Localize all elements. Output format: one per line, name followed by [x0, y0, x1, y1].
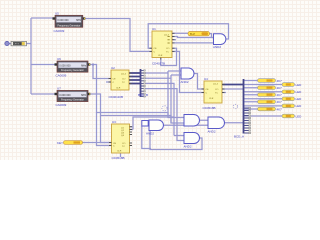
svg-text:U4: U4: [204, 77, 208, 81]
svg-text:LED: LED: [296, 90, 303, 94]
svg-text:Frequency Generator: Frequency Generator: [58, 25, 81, 28]
svg-text:AND2: AND2: [181, 80, 189, 84]
svg-text:Frequency Generator: Frequency Generator: [61, 69, 84, 72]
svg-text:AND2: AND2: [208, 130, 216, 134]
svg-text:LED: LED: [296, 114, 303, 118]
svg-text:CD4518B: CD4518B: [203, 106, 216, 110]
svg-text:CO: CO: [166, 48, 170, 50]
svg-text:BUZ: BUZ: [190, 33, 195, 36]
svg-text:4K7: 4K7: [277, 79, 283, 83]
svg-text:CD4518B: CD4518B: [112, 156, 125, 160]
svg-text:CE: CE: [206, 89, 210, 91]
svg-text:CO: CO: [122, 79, 126, 81]
svg-text:CE: CE: [154, 48, 158, 50]
svg-text:Q1-4: Q1-4: [213, 84, 219, 86]
svg-text:AND2: AND2: [184, 145, 192, 149]
svg-text:4K7: 4K7: [277, 86, 283, 90]
svg-text:U6: U6: [57, 57, 61, 61]
svg-text:CRYS: CRYS: [13, 44, 20, 46]
svg-text:LED: LED: [296, 83, 303, 87]
svg-text:TC: TC: [122, 146, 125, 148]
svg-text:MHz: MHz: [76, 19, 82, 22]
svg-text:4K7: 4K7: [277, 107, 283, 111]
svg-text:0.000 000: 0.000 000: [59, 94, 71, 97]
svg-text:AND2: AND2: [146, 132, 154, 136]
svg-text:CLR: CLR: [158, 55, 163, 57]
svg-text:CLR: CLR: [209, 98, 214, 100]
svg-text:4K7: 4K7: [277, 93, 283, 97]
svg-text:4K7: 4K7: [277, 100, 283, 104]
svg-text:U7: U7: [57, 87, 61, 91]
svg-text:CD40110B: CD40110B: [109, 95, 123, 99]
svg-text:CD4017B: CD4017B: [152, 62, 165, 66]
svg-text:CLR: CLR: [117, 151, 122, 153]
svg-text:CLR: CLR: [116, 88, 121, 90]
svg-text:0.000 000: 0.000 000: [57, 19, 69, 22]
svg-text:TC: TC: [166, 51, 169, 53]
svg-text:MHz: MHz: [81, 94, 87, 97]
svg-text:BCD_A: BCD_A: [234, 135, 244, 139]
svg-text:BCD_B: BCD_B: [138, 93, 148, 97]
svg-text:MHz: MHz: [81, 65, 87, 68]
svg-text:CA0009: CA0009: [54, 29, 65, 33]
svg-text:TC: TC: [215, 92, 218, 94]
svg-text:CE: CE: [113, 79, 117, 81]
svg-text:U3: U3: [112, 120, 116, 124]
svg-text:0.000 000: 0.000 000: [59, 65, 71, 68]
svg-text:Q1-4: Q1-4: [121, 74, 127, 76]
svg-text:LED: LED: [296, 104, 303, 108]
svg-text:CE: CE: [113, 143, 117, 145]
svg-text:U5: U5: [55, 12, 59, 16]
svg-text:KEY: KEY: [57, 141, 63, 145]
svg-text:AND2: AND2: [213, 45, 221, 49]
svg-text:U2: U2: [111, 66, 115, 70]
svg-text:CA0009: CA0009: [56, 74, 67, 78]
svg-text:CO: CO: [215, 89, 219, 91]
svg-text:LED: LED: [296, 97, 303, 101]
svg-text:TC: TC: [122, 82, 125, 84]
svg-text:CO: CO: [122, 143, 126, 145]
svg-text:Frequency Generator: Frequency Generator: [61, 99, 84, 102]
svg-text:CA0009: CA0009: [56, 103, 67, 107]
svg-text:U1: U1: [152, 27, 156, 31]
